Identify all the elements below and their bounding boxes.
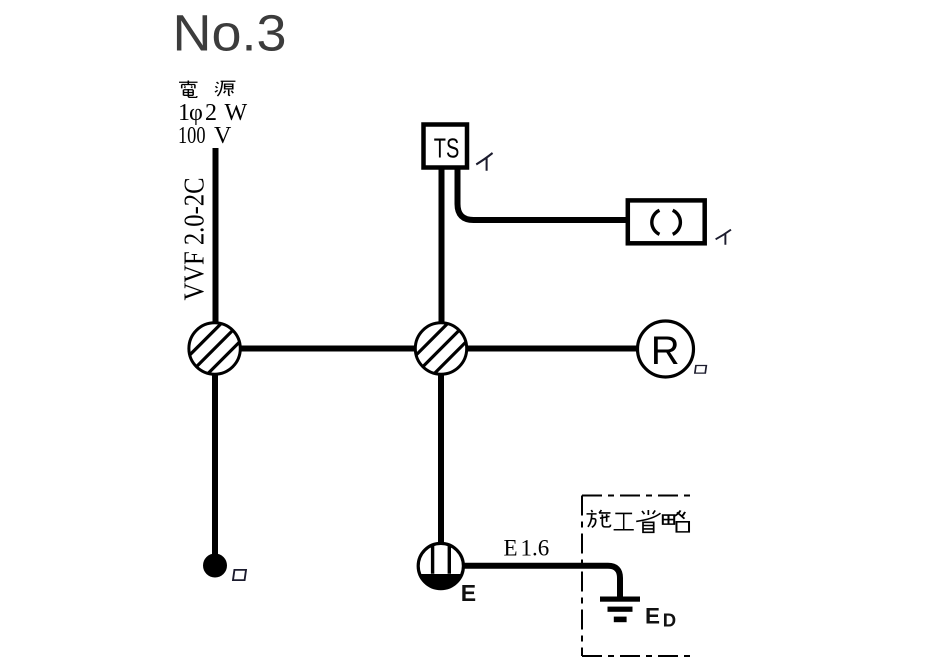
svg-text:V: V (214, 123, 232, 149)
wire outlet to earth (E1.6) (460, 566, 620, 599)
wire right junction down to outlet (438, 349, 444, 551)
wire right junction to lamp R (441, 346, 639, 352)
label イ (at TS) (476, 153, 492, 171)
ceiling outlet (black dot) (203, 554, 227, 578)
label ロ (at R) (695, 366, 706, 374)
junction box J2 (right, hatched circle) (415, 323, 466, 374)
label 施 (587, 510, 611, 527)
timer switch TS box (424, 125, 468, 168)
label イ (at lamp box) (716, 230, 731, 245)
label 省 (636, 510, 660, 532)
label 電 (power source text) (179, 81, 197, 98)
lamp R circle (638, 321, 694, 377)
dashed box (top edge) (582, 495, 690, 497)
svg-text:100: 100 (178, 123, 206, 149)
svg-text:R: R (651, 329, 680, 373)
lamp fixture box ( ) (628, 200, 705, 243)
wire left junction down to ceiling dot (212, 349, 218, 556)
svg-text:E: E (461, 580, 476, 606)
svg-text:E: E (645, 604, 660, 629)
label 工 (614, 513, 634, 529)
dashed box (bottom edge) (582, 655, 690, 657)
wire left junction to right junction (214, 346, 441, 352)
svg-text:No.3: No.3 (173, 5, 287, 62)
label ロ (at dot) (233, 570, 246, 580)
label 略 (663, 510, 689, 531)
svg-text:1.6: 1.6 (521, 536, 550, 561)
svg-text:D: D (663, 610, 676, 631)
svg-text:VVF 2.0-2C: VVF 2.0-2C (180, 178, 211, 301)
earth electrode ED symbol (600, 597, 640, 602)
wire TS right pin to lamp box (458, 166, 629, 220)
outlet with earth (circle, 2 bars, filled bottom) (418, 543, 463, 588)
wire TS left pin down to right junction (439, 166, 445, 348)
junction box J1 (left, hatched circle) (189, 323, 240, 374)
label 源 (215, 81, 235, 96)
dashed box 施工省略 (left edge) (581, 496, 583, 657)
svg-text:E: E (504, 536, 518, 561)
svg-text:TS: TS (434, 133, 460, 164)
wire power to left junction (213, 148, 219, 330)
